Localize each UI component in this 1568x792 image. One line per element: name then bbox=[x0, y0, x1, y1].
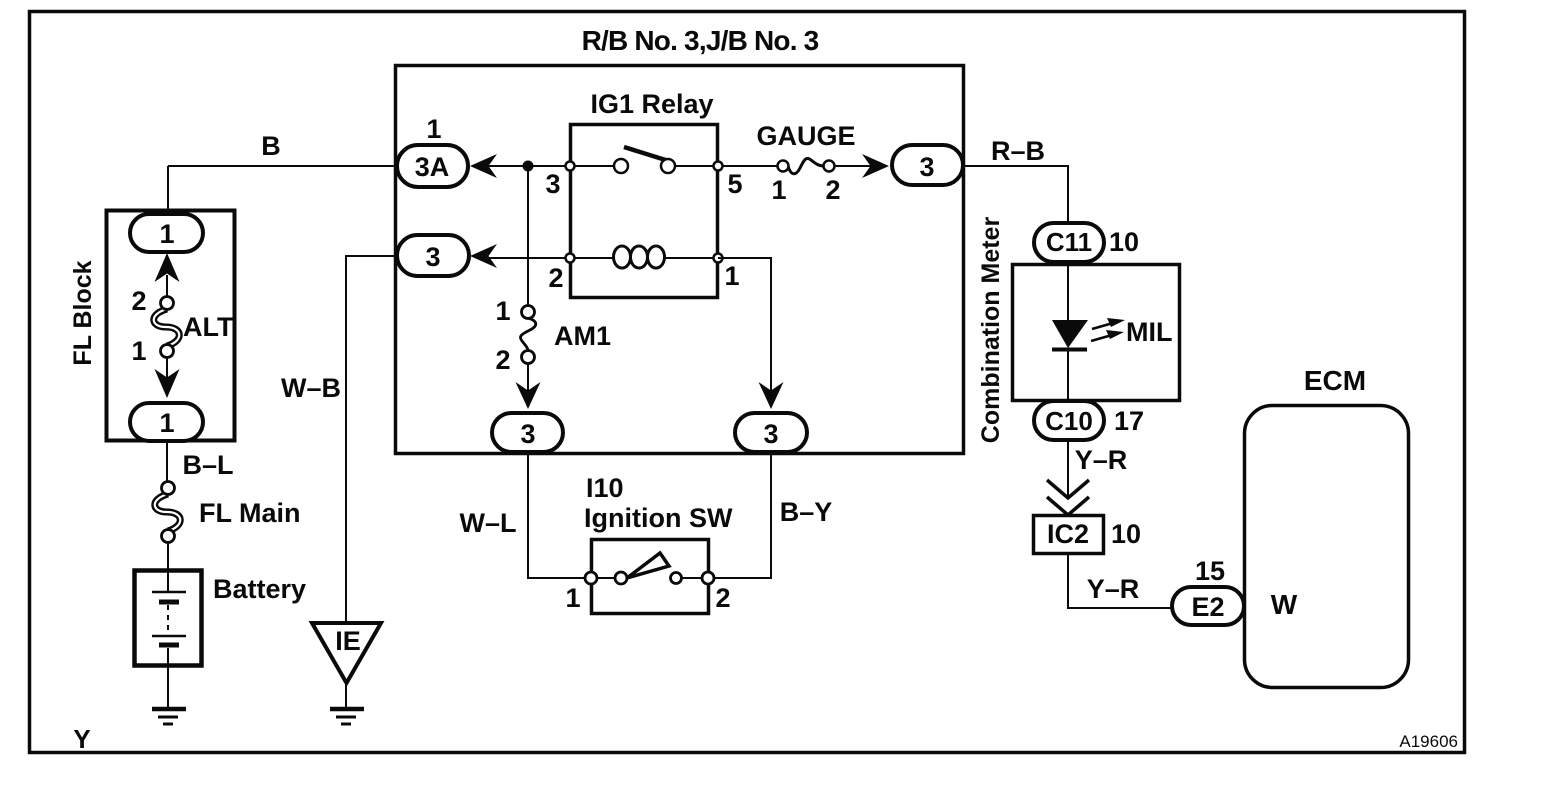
ground IE bbox=[330, 709, 364, 724]
fuse FL Main squiggle bbox=[155, 494, 181, 531]
wire relay contact to GAUGE bbox=[668, 165, 783, 167]
ignition inner wires bbox=[591, 577, 621, 579]
wire coil to right drop bbox=[718, 258, 771, 392]
wire W-L bbox=[528, 452, 591, 578]
arrow up FL bbox=[155, 253, 180, 282]
wire coil to pin 1 bbox=[664, 257, 718, 259]
svg-text:1: 1 bbox=[495, 296, 510, 326]
svg-text:3: 3 bbox=[425, 242, 440, 272]
connector 1 top bbox=[130, 214, 203, 252]
wire IE to ground bbox=[345, 683, 347, 708]
svg-text:IC2: IC2 bbox=[1047, 519, 1089, 549]
svg-text:Y: Y bbox=[73, 724, 90, 754]
svg-text:3: 3 bbox=[919, 152, 934, 182]
relay terminal 5 bbox=[714, 162, 723, 171]
ignition terminal 2 outer bbox=[702, 572, 714, 584]
svg-text:B: B bbox=[261, 131, 281, 161]
svg-text:10: 10 bbox=[1109, 227, 1139, 257]
wire Y-R lower bbox=[1068, 553, 1172, 608]
fuse FL Main terminal top bbox=[162, 482, 175, 495]
wire B horizontal bbox=[168, 165, 397, 167]
ignition blade bbox=[627, 553, 669, 578]
relay terminal 3 bbox=[566, 162, 575, 171]
connector 3 ignition right bbox=[735, 413, 807, 452]
svg-text:W–L: W–L bbox=[460, 508, 517, 538]
wire W-B stub bbox=[346, 256, 397, 623]
ignition inner wire right bbox=[676, 577, 708, 579]
fuse AM1 terminal 1 bbox=[522, 306, 535, 319]
svg-text:B–L: B–L bbox=[182, 450, 233, 480]
ignition contact right bbox=[671, 573, 682, 584]
switch blade bbox=[624, 147, 672, 162]
fuse AM1 terminal 2 bbox=[522, 351, 535, 364]
svg-text:GAUGE: GAUGE bbox=[756, 121, 855, 151]
junction IC2 bbox=[1034, 516, 1104, 554]
battery cells bbox=[152, 570, 186, 665]
svg-text:17: 17 bbox=[1114, 406, 1144, 436]
relay coil bbox=[614, 246, 665, 268]
fuse FL Main terminal bottom bbox=[162, 530, 175, 543]
connector E2 bbox=[1172, 587, 1244, 625]
svg-text:I10: I10 bbox=[586, 473, 624, 503]
svg-text:1: 1 bbox=[159, 408, 174, 438]
svg-text:15: 15 bbox=[1195, 556, 1225, 586]
LED MIL diode bbox=[1052, 320, 1088, 350]
wire LED to C10 bbox=[1067, 351, 1069, 402]
connector C10 bbox=[1034, 401, 1104, 440]
svg-text:3A: 3A bbox=[415, 152, 450, 182]
wire fuse to battery bbox=[167, 542, 169, 570]
svg-text:2: 2 bbox=[495, 345, 510, 375]
arrow down FL bbox=[155, 369, 180, 398]
chevron splice bbox=[1047, 480, 1089, 515]
svg-text:Battery: Battery bbox=[213, 574, 306, 604]
wire B riser bbox=[167, 166, 169, 215]
wire C11 to LED bbox=[1067, 262, 1069, 321]
wire B-Y bbox=[708, 452, 771, 578]
svg-text:Y–R: Y–R bbox=[1087, 574, 1140, 604]
svg-text:3: 3 bbox=[545, 169, 560, 199]
wire am1 to arrow bbox=[527, 363, 529, 392]
wire battery to ground bbox=[167, 665, 169, 708]
ignition terminal 1 outer bbox=[585, 572, 597, 584]
wire arrow to relay pin 3 bbox=[487, 165, 621, 167]
svg-text:FL Block: FL Block bbox=[69, 260, 97, 365]
battery box bbox=[135, 571, 202, 666]
ground symbol IE bbox=[312, 623, 381, 683]
relay box bbox=[571, 125, 718, 298]
fuse ALT terminal 1 bbox=[161, 345, 174, 358]
connector C11 bbox=[1034, 223, 1104, 262]
svg-text:2: 2 bbox=[548, 263, 563, 293]
svg-text:FL Main: FL Main bbox=[199, 498, 301, 528]
wire R-B bbox=[963, 166, 1068, 225]
svg-text:3: 3 bbox=[520, 419, 535, 449]
connector 3A bbox=[397, 145, 468, 187]
svg-text:A19606: A19606 bbox=[1399, 732, 1458, 751]
svg-text:W: W bbox=[1271, 589, 1298, 620]
arrow down into 3 right bbox=[759, 382, 784, 409]
svg-text:R–B: R–B bbox=[991, 136, 1045, 166]
fuse ALT squiggle bbox=[154, 309, 180, 346]
wire Y-R upper bbox=[1067, 440, 1069, 496]
switch contact left bbox=[614, 159, 628, 173]
svg-text:Y–R: Y–R bbox=[1075, 445, 1128, 475]
svg-text:1: 1 bbox=[159, 219, 174, 249]
fuse GAUGE terminal 1 bbox=[778, 161, 789, 172]
svg-text:B–Y: B–Y bbox=[780, 497, 833, 527]
svg-text:IG1 Relay: IG1 Relay bbox=[590, 89, 713, 119]
connector 3 ignition left bbox=[492, 413, 563, 452]
switch contact right bbox=[661, 159, 675, 173]
svg-text:10: 10 bbox=[1111, 519, 1141, 549]
svg-text:R/B No. 3,J/B No. 3: R/B No. 3,J/B No. 3 bbox=[582, 25, 819, 56]
ignition switch box bbox=[592, 540, 709, 614]
fuse ALT terminal 2 bbox=[161, 297, 174, 310]
LED arrows bbox=[1091, 323, 1113, 341]
wire AM1 drop bbox=[527, 166, 529, 312]
svg-text:3: 3 bbox=[763, 419, 778, 449]
svg-text:1: 1 bbox=[565, 583, 580, 613]
relay terminal 2 bbox=[566, 254, 575, 263]
junction box R/B No.3 bbox=[396, 66, 964, 454]
ignition contact left bbox=[615, 572, 627, 584]
svg-text:C11: C11 bbox=[1046, 227, 1092, 257]
svg-text:Ignition SW: Ignition SW bbox=[584, 503, 733, 533]
svg-text:C10: C10 bbox=[1045, 406, 1093, 436]
svg-text:1: 1 bbox=[131, 336, 146, 366]
combination meter box bbox=[1013, 265, 1180, 401]
relay terminal 1 bbox=[714, 254, 723, 263]
svg-text:2: 2 bbox=[825, 175, 840, 205]
arrow into connector 3 right bbox=[862, 154, 889, 178]
svg-text:ALT: ALT bbox=[183, 312, 234, 342]
arrow into 3 coil bbox=[470, 244, 497, 268]
svg-text:5: 5 bbox=[727, 169, 742, 199]
svg-text:2: 2 bbox=[131, 286, 146, 316]
fuse AM1 squiggle bbox=[520, 318, 535, 351]
fuse GAUGE squiggle bbox=[788, 158, 824, 173]
connector 1 bottom bbox=[130, 403, 203, 441]
connector 3 gauge bbox=[892, 145, 963, 185]
wire B-L bbox=[166, 441, 168, 482]
junction dot bbox=[523, 161, 534, 172]
svg-text:2: 2 bbox=[715, 583, 730, 613]
svg-text:1: 1 bbox=[426, 114, 441, 144]
svg-text:MIL: MIL bbox=[1126, 317, 1173, 347]
ECM box bbox=[1245, 406, 1409, 688]
svg-text:AM1: AM1 bbox=[554, 321, 611, 351]
arrow into 3A bbox=[470, 154, 497, 178]
svg-text:1: 1 bbox=[724, 261, 739, 291]
arrow down into 3 left bbox=[516, 382, 541, 409]
svg-text:Combination Meter: Combination Meter bbox=[977, 217, 1005, 444]
svg-text:E2: E2 bbox=[1191, 592, 1224, 622]
svg-text:ECM: ECM bbox=[1304, 365, 1366, 396]
fuse GAUGE terminal 2 bbox=[824, 161, 835, 172]
LED arrow heads bbox=[1106, 318, 1125, 339]
wire gauge to arrow bbox=[834, 165, 872, 167]
svg-text:W–B: W–B bbox=[281, 373, 341, 403]
wire arrow to ALT bbox=[166, 275, 168, 303]
wire arrow to coil bbox=[487, 257, 614, 259]
ground battery bbox=[152, 709, 186, 724]
wire alt to arrow bbox=[166, 357, 168, 379]
connector 3 into coil bbox=[397, 235, 469, 276]
FL block box bbox=[107, 211, 235, 441]
svg-text:1: 1 bbox=[771, 175, 786, 205]
svg-text:IE: IE bbox=[335, 626, 361, 656]
